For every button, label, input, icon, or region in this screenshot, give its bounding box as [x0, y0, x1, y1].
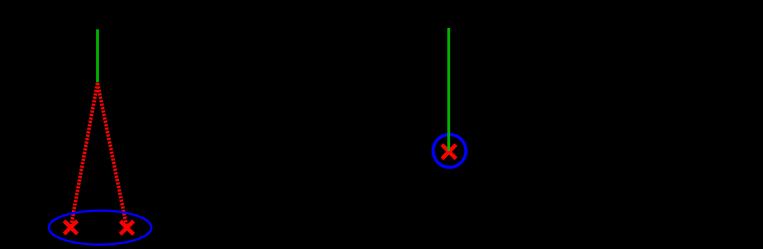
uncertainty cone right edge (red dotted) — [98, 83, 127, 228]
bob position marker X3 (red) — [442, 145, 456, 159]
left bob position marker X1 (red) — [64, 221, 77, 234]
uncertainty cone left edge (red dotted) — [71, 83, 98, 227]
left pendulum rod (green) — [96, 29, 99, 82]
bob circle (blue) — [433, 135, 466, 168]
right pendulum rod (green) — [447, 28, 450, 151]
position spread ellipse (blue) — [49, 211, 152, 245]
right bob position marker X2 (red) — [120, 221, 133, 234]
